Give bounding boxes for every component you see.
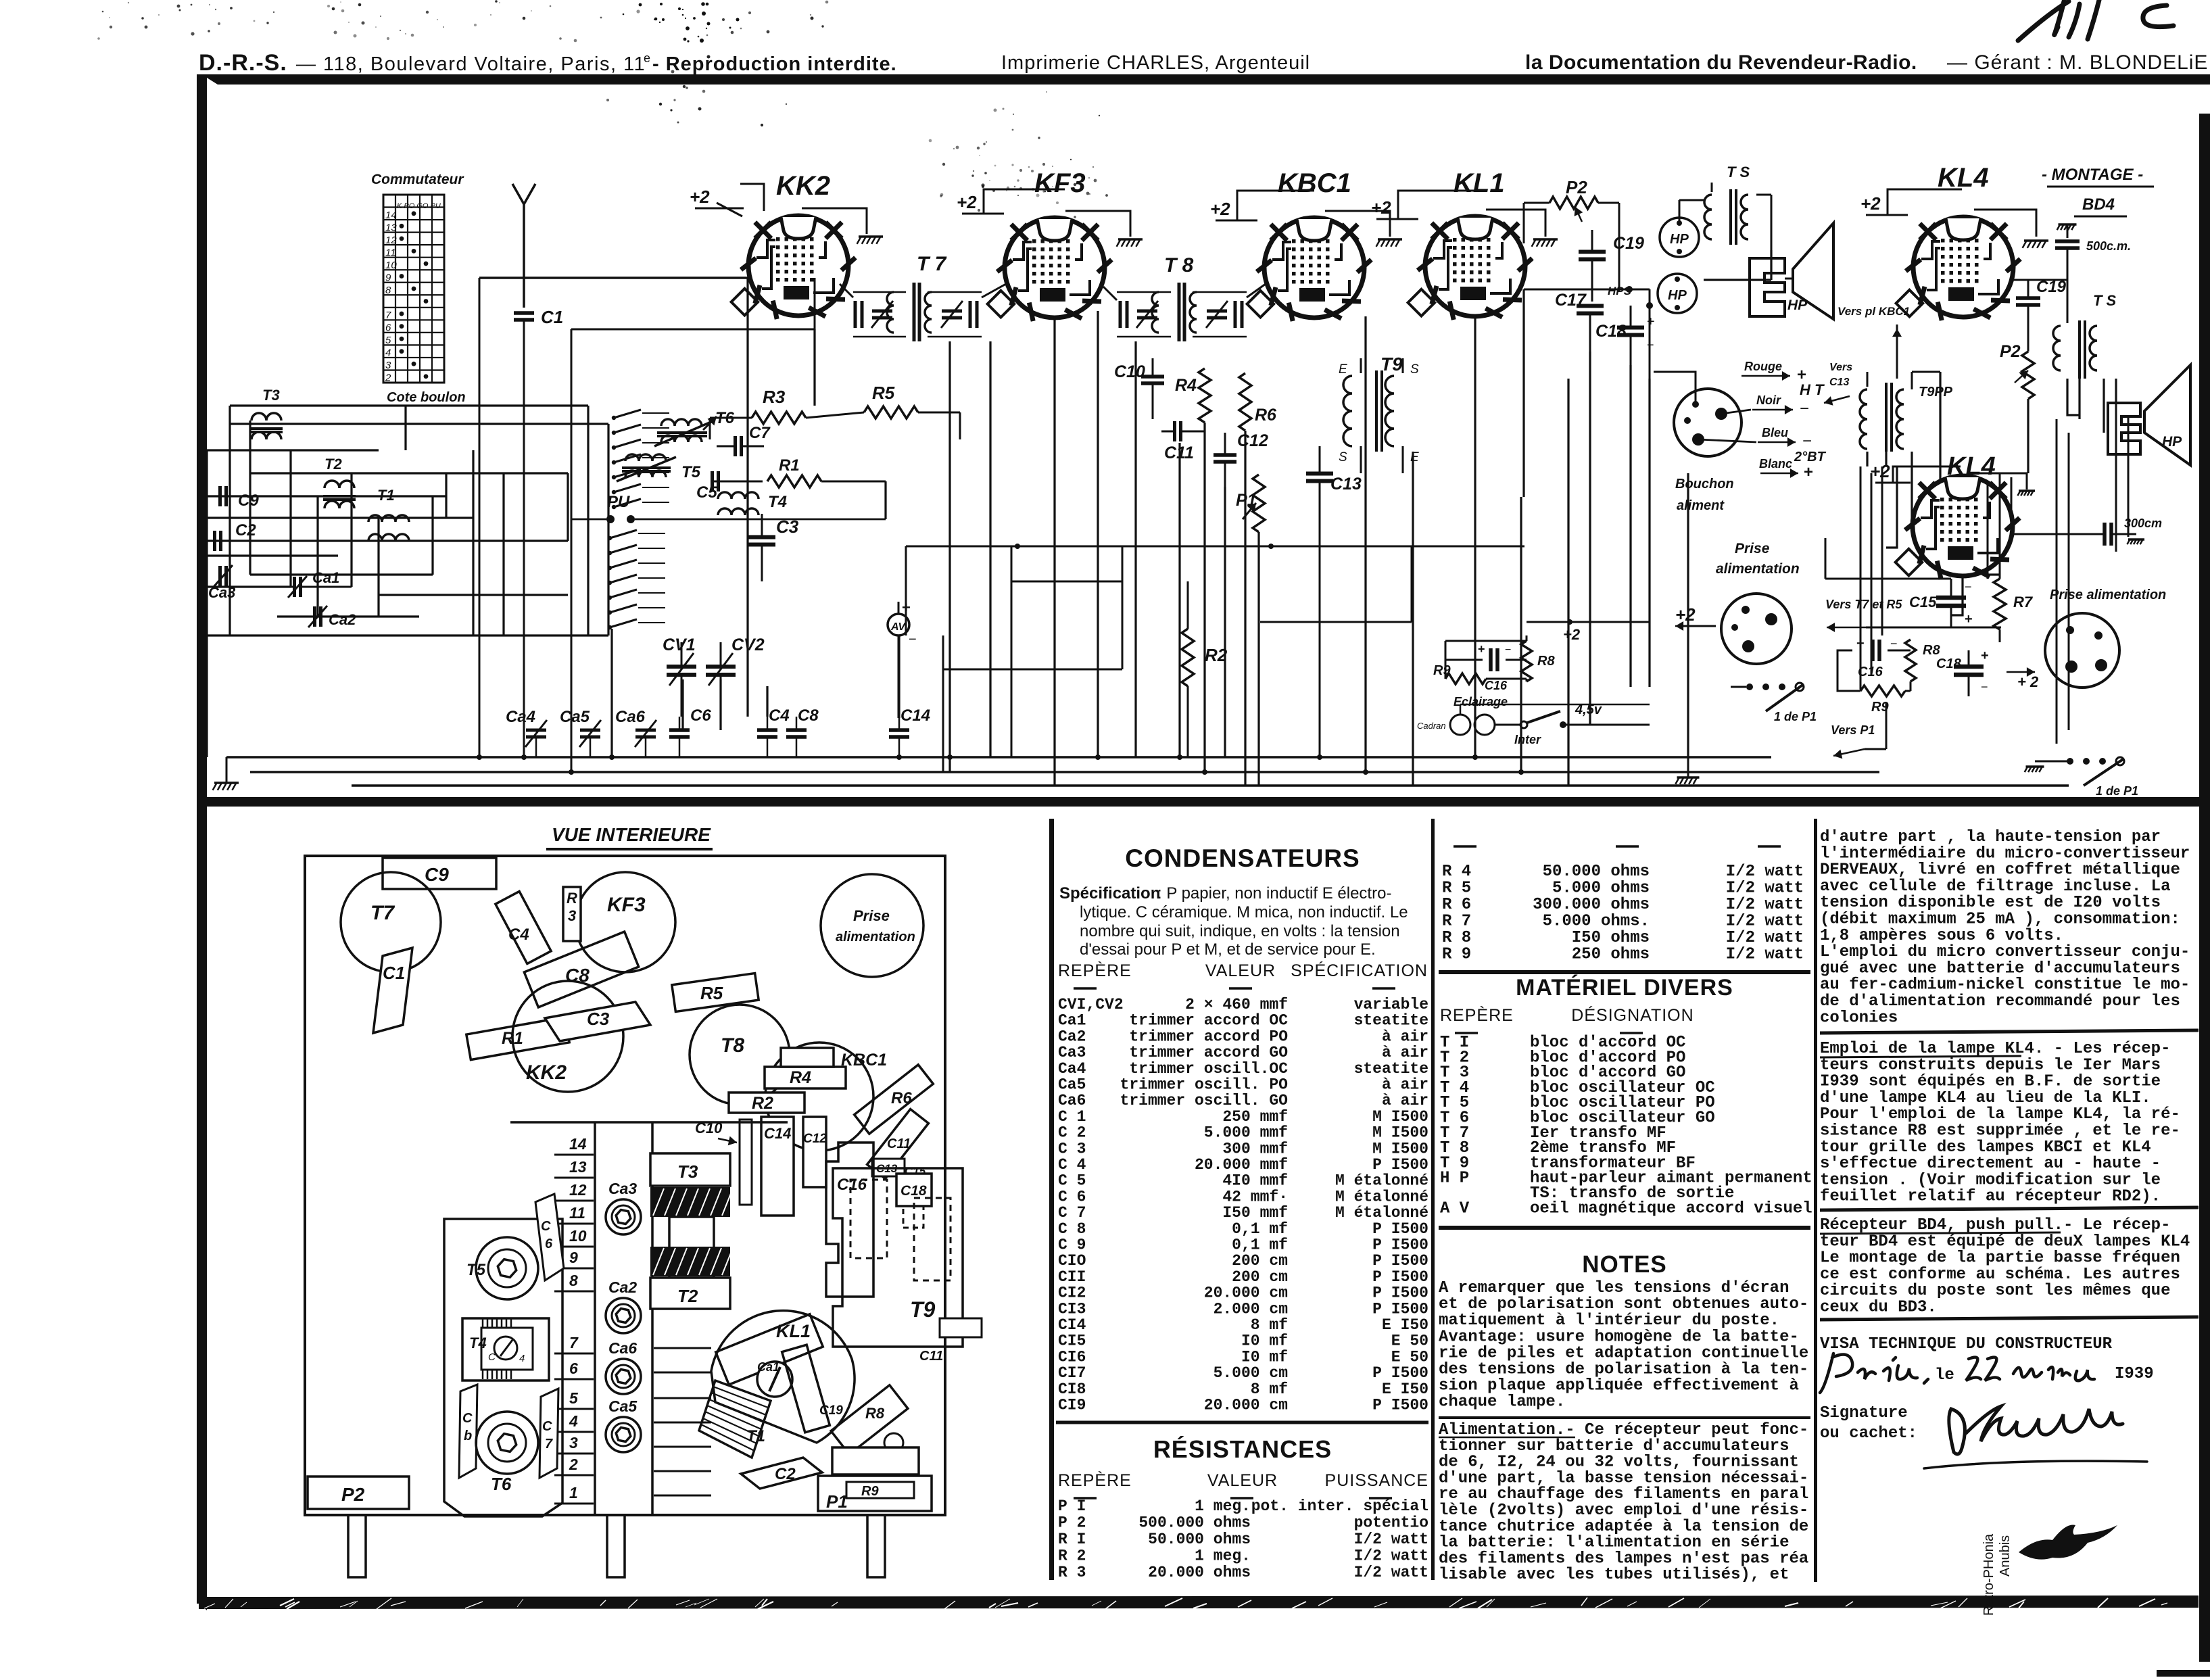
- capacitor C15 right: [1936, 596, 1966, 600]
- svg-text:CI2: CI2: [1058, 1285, 1086, 1302]
- svg-text:1 meg.: 1 meg.: [1195, 1497, 1251, 1515]
- svg-text:2.000 cm: 2.000 cm: [1214, 1300, 1288, 1318]
- wire vertical drops: [612, 278, 1568, 786]
- svg-text:I939 sont équipés en B.F. de: I939 sont équipés en B.F. de sortie: [1820, 1073, 2161, 1091]
- svg-text:T1: T1: [746, 1427, 765, 1445]
- svg-text:P I500: P I500: [1372, 1364, 1428, 1382]
- svg-text:R4: R4: [790, 1068, 811, 1087]
- svg-text:Cote boulon: Cote boulon: [387, 390, 466, 405]
- svg-text:circuits du poste sont les m: circuits du poste sont les mêmes que: [1820, 1282, 2170, 1300]
- svg-text:5.000 ohms: 5.000 ohms: [1552, 880, 1650, 898]
- capacitor C19 right: [2016, 296, 2040, 300]
- svg-text:+2: +2: [690, 187, 710, 207]
- switch 1 de P1 left: [1731, 683, 1817, 723]
- svg-text:feuillet relatif au récepteur: feuillet relatif au récepteur RD2).: [1820, 1188, 2161, 1206]
- svg-text:teur BD4 est équipé de deuX la: teur BD4 est équipé de deuX lampes KL4: [1820, 1232, 2190, 1251]
- svg-text:C 6: C 6: [1058, 1188, 1086, 1205]
- svg-text:2 × 460 mmf: 2 × 460 mmf: [1185, 996, 1288, 1013]
- svg-text:Retro-PHonia: Retro-PHonia: [1981, 1533, 1996, 1616]
- coil T5: [476, 1237, 538, 1299]
- tube KK2: [690, 171, 883, 319]
- svg-text:2: 2: [569, 1456, 578, 1473]
- svg-text:à air: à air: [1382, 1028, 1428, 1045]
- svg-text:- MONTAGE -: - MONTAGE -: [2042, 166, 2143, 184]
- svg-text:alimentation: alimentation: [836, 930, 915, 944]
- svg-text:T S: T S: [2093, 292, 2117, 309]
- svg-text:C3: C3: [587, 1009, 610, 1029]
- svg-text:Rouge: Rouge: [1744, 360, 1782, 373]
- svg-text:C 7: C 7: [1058, 1204, 1086, 1222]
- svg-text:C2: C2: [775, 1465, 796, 1483]
- capacitor Cb: [459, 1385, 477, 1478]
- svg-text:I50 ohms: I50 ohms: [1572, 929, 1650, 947]
- socket prise alimentation: [821, 874, 923, 977]
- svg-text:20.000 ohms: 20.000 ohms: [1148, 1564, 1251, 1581]
- condenser C9 block: [383, 858, 496, 889]
- svg-text:Ca5: Ca5: [1058, 1076, 1086, 1094]
- variable capacitor CV1: [667, 665, 696, 669]
- svg-text:steatite: steatite: [1354, 1012, 1428, 1030]
- svg-text:E 50: E 50: [1391, 1333, 1428, 1350]
- svg-text:C19: C19: [1613, 234, 1644, 253]
- handwritten date: [1820, 1353, 1928, 1393]
- trimmer Ca5: [606, 1417, 641, 1452]
- svg-text:7: 7: [569, 1334, 579, 1351]
- wire HT bus: [352, 784, 2069, 787]
- svg-text:— 118, Boulevard Voltaire, Par: — 118, Boulevard Voltaire, Paris, 11: [296, 53, 646, 75]
- svg-text:ce est conforme au schéma. Le: ce est conforme au schéma. Les autres: [1820, 1266, 2180, 1284]
- svg-text:C 3: C 3: [1058, 1140, 1086, 1157]
- svg-text:CI3: CI3: [1058, 1300, 1086, 1318]
- svg-text:KBC1: KBC1: [1278, 168, 1351, 198]
- svg-text:E I50: E I50: [1382, 1316, 1428, 1334]
- svg-text:REPÈRE: REPÈRE: [1058, 961, 1132, 980]
- svg-text:−: −: [909, 632, 917, 647]
- svg-text:aliment: aliment: [1677, 498, 1725, 513]
- speaker HP field coil circle 1: [1660, 218, 1699, 257]
- svg-text:T9: T9: [1380, 354, 1403, 375]
- IF transformer T7: [840, 253, 1006, 341]
- svg-text:R4: R4: [1175, 376, 1197, 395]
- svg-text:Eclairage: Eclairage: [1454, 695, 1508, 709]
- svg-text:R1: R1: [779, 456, 800, 475]
- trimmer Ca4: [526, 729, 546, 732]
- trimmer Ca2: [606, 1298, 641, 1333]
- resistor R4: [1199, 368, 1211, 423]
- svg-text:Ca1: Ca1: [757, 1360, 779, 1374]
- resistor R1: [767, 475, 821, 487]
- svg-text:T 7: T 7: [917, 253, 947, 275]
- svg-text:C 1: C 1: [1058, 1108, 1086, 1126]
- capacitor C13: [872, 1159, 905, 1176]
- T2 block: [650, 1278, 730, 1309]
- svg-text:6: 6: [569, 1360, 578, 1377]
- svg-text:oeil magnétique accord visuel: oeil magnétique accord visuel: [1530, 1199, 1812, 1218]
- svg-text:P I500: P I500: [1372, 1252, 1428, 1270]
- T3 winding hatched: [650, 1187, 730, 1217]
- svg-text:Commutateur: Commutateur: [371, 172, 464, 187]
- svg-text:M étalonné: M étalonné: [1335, 1172, 1428, 1190]
- capacitor C2: [213, 531, 216, 551]
- capacitor C10: [1141, 375, 1164, 379]
- svg-text:R 8: R 8: [1442, 929, 1471, 947]
- trimmer Ca2: [313, 606, 316, 627]
- svg-text:R 5: R 5: [1442, 880, 1471, 898]
- svg-text:6: 6: [385, 322, 391, 334]
- svg-text:Ca4: Ca4: [506, 708, 535, 726]
- svg-text:AV: AV: [890, 621, 906, 633]
- svg-text:6: 6: [545, 1237, 553, 1251]
- capacitor C14: [761, 1117, 794, 1216]
- capacitor C18: [1617, 326, 1644, 330]
- svg-text:C7: C7: [749, 424, 771, 442]
- resistances table continued R4-R9: [1454, 845, 1476, 848]
- svg-text:C18: C18: [1595, 322, 1627, 341]
- svg-text:T8: T8: [721, 1034, 744, 1057]
- svg-text:Inter: Inter: [1514, 733, 1541, 746]
- resistor R5: [672, 974, 759, 1012]
- svg-text:T9: T9: [910, 1297, 936, 1322]
- svg-text:Ca2: Ca2: [1058, 1028, 1086, 1045]
- svg-text:C12: C12: [1237, 431, 1268, 450]
- svg-text:C8: C8: [798, 706, 819, 725]
- svg-text:pot. inter. spécial: pot. inter. spécial: [1251, 1497, 1428, 1515]
- svg-text:C2: C2: [235, 521, 256, 539]
- svg-text:- Reproduction interdite.: - Reproduction interdite.: [652, 53, 897, 75]
- svg-text:colonies: colonies: [1820, 1009, 1898, 1027]
- svg-text:à air: à air: [1382, 1044, 1428, 1061]
- svg-text:P2: P2: [2000, 342, 2021, 361]
- svg-text:E 50: E 50: [1391, 1348, 1428, 1366]
- svg-text:7: 7: [545, 1437, 553, 1451]
- svg-text:P2: P2: [341, 1484, 365, 1505]
- svg-text:3: 3: [569, 1434, 578, 1451]
- svg-text:20.000 cm: 20.000 cm: [1204, 1285, 1288, 1302]
- svg-text:C16: C16: [1485, 679, 1508, 692]
- svg-text:250 mmf: 250 mmf: [1222, 1108, 1288, 1126]
- transformer T3: [250, 387, 283, 439]
- svg-text:C10: C10: [1114, 362, 1145, 381]
- capacitor C18 bottom: [1954, 665, 1984, 669]
- svg-text:−: −: [1965, 580, 1972, 594]
- tube KL4 lower: [1870, 452, 2035, 579]
- resistor R3: [563, 887, 581, 941]
- svg-text:Spécification: Spécification: [1059, 884, 1160, 903]
- svg-text:REPÈRE: REPÈRE: [1058, 1470, 1132, 1490]
- svg-text:Bleu: Bleu: [1762, 426, 1788, 439]
- svg-text:— Gérant : M. BLONDELiE: — Gérant : M. BLONDELiE: [1947, 51, 2208, 74]
- svg-text:VALEUR: VALEUR: [1207, 1471, 1278, 1490]
- potentiometer P2 box: [308, 1477, 409, 1509]
- svg-text:KF3: KF3: [1034, 168, 1086, 198]
- coil T4: [462, 1318, 549, 1381]
- svg-text:I/2 watt: I/2 watt: [1354, 1547, 1428, 1565]
- svg-text:D.-R.-S.: D.-R.-S.: [199, 50, 287, 76]
- svg-text:I50 mmf: I50 mmf: [1222, 1204, 1288, 1222]
- wire filament bus: [226, 756, 1771, 759]
- svg-text:VUE INTERIEURE: VUE INTERIEURE: [552, 824, 711, 845]
- capacitor C2: [741, 1458, 822, 1489]
- svg-text:+2: +2: [1563, 626, 1581, 643]
- pickup PU: [606, 515, 615, 523]
- svg-text:−: −: [1890, 637, 1898, 650]
- svg-text:8: 8: [569, 1272, 578, 1289]
- oscillator coil T4: [718, 492, 787, 515]
- svg-text:E: E: [1339, 362, 1347, 377]
- svg-text:P I500: P I500: [1372, 1237, 1428, 1254]
- svg-text:l'intermédiaire du micro-conve: l'intermédiaire du micro-convertisseur: [1820, 844, 2190, 863]
- svg-text:Prise: Prise: [853, 907, 890, 924]
- svg-text:tension . (Voir modification: tension . (Voir modification sur le: [1820, 1171, 2161, 1189]
- svg-text:SPÉCIFICATION: SPÉCIFICATION: [1291, 961, 1428, 980]
- svg-text:CI5: CI5: [1058, 1333, 1086, 1350]
- svg-text:R 9: R 9: [1442, 946, 1471, 964]
- power plug bouchon alimentation: [1654, 360, 1827, 513]
- svg-text:KK2: KK2: [526, 1061, 567, 1084]
- capacitor C17: [1577, 304, 1604, 308]
- svg-text:R7: R7: [2013, 594, 2034, 610]
- svg-text:0,1 mf: 0,1 mf: [1232, 1237, 1288, 1254]
- transformer T8 can: [690, 1005, 790, 1105]
- svg-text:R 2: R 2: [1058, 1547, 1086, 1565]
- svg-text:S: S: [1339, 450, 1347, 464]
- svg-text:C: C: [488, 1351, 496, 1363]
- svg-text:C: C: [541, 1219, 551, 1234]
- svg-text:PU: PU: [607, 493, 630, 511]
- svg-text:Vers: Vers: [1829, 362, 1852, 373]
- svg-text:Ca2: Ca2: [329, 611, 356, 628]
- svg-text:500.000 ohms: 500.000 ohms: [1138, 1514, 1251, 1532]
- svg-text:I/2 watt: I/2 watt: [1726, 913, 1804, 931]
- svg-text:K PO GO PU: K PO GO PU: [397, 202, 441, 210]
- svg-text:à air: à air: [1382, 1076, 1428, 1094]
- svg-text:+: +: [1647, 314, 1655, 329]
- power socket prise alimentation right: [2045, 587, 2166, 688]
- speaker HP field coil circle 2: [1658, 274, 1697, 313]
- svg-text:Pour l'emploi de la lampe KL: Pour l'emploi de la lampe KL4, la ré-: [1820, 1105, 2180, 1124]
- svg-text:Récepteur BD4, push pull.- L: Récepteur BD4, push pull.- Le récep-: [1820, 1216, 2170, 1234]
- svg-text:Vers T7 et R5: Vers T7 et R5: [1825, 598, 1902, 611]
- svg-text:T4: T4: [469, 1335, 487, 1351]
- svg-text:3: 3: [568, 907, 576, 924]
- svg-text:à air: à air: [1382, 1092, 1428, 1109]
- svg-text:8: 8: [385, 285, 391, 296]
- svg-text:+2: +2: [1675, 604, 1696, 625]
- svg-text:PUISSANCE: PUISSANCE: [1325, 1471, 1428, 1490]
- wire ground bus: [250, 771, 1879, 773]
- svg-text:I/2 watt: I/2 watt: [1726, 880, 1804, 898]
- T3 block: [650, 1153, 730, 1186]
- svg-text:2°BT: 2°BT: [1794, 450, 1827, 464]
- svg-text:H P: H P: [1440, 1170, 1469, 1188]
- svg-text:BD4: BD4: [2082, 195, 2115, 214]
- coil T6: [476, 1412, 538, 1474]
- capacitor C16 left: [1489, 648, 1493, 671]
- svg-text:Ca3: Ca3: [608, 1180, 637, 1197]
- svg-text:CV1: CV1: [663, 635, 696, 654]
- svg-text:: P papier, non inductif E él: : P papier, non inductif E électro-: [1157, 884, 1391, 903]
- svg-text:KL4: KL4: [1938, 163, 1989, 193]
- resistor R9 bottom: [1860, 686, 1905, 696]
- band switch contacts: [608, 410, 669, 629]
- transformer T2: [323, 456, 356, 508]
- wire AVC bus: [571, 329, 815, 331]
- svg-text:Ca5: Ca5: [560, 708, 590, 726]
- svg-text:T6: T6: [491, 1474, 512, 1494]
- svg-text:1 de P1: 1 de P1: [1774, 710, 1817, 723]
- svg-text:Ca3: Ca3: [1058, 1044, 1086, 1061]
- svg-text:300.000 ohms: 300.000 ohms: [1533, 896, 1650, 914]
- capacitor 300cm: [2103, 523, 2107, 546]
- svg-text:T9PP: T9PP: [1919, 385, 1953, 400]
- svg-text:HP: HP: [1668, 288, 1687, 303]
- svg-text:9: 9: [569, 1249, 578, 1266]
- potentiometer P1: [818, 1476, 932, 1511]
- capacitor C1: [373, 948, 412, 1033]
- svg-text:C 4: C 4: [1058, 1156, 1086, 1174]
- wire loop A: [906, 546, 1524, 548]
- svg-text:CII: CII: [1058, 1268, 1086, 1286]
- capacitor C8: [524, 932, 638, 1007]
- svg-text:Ca6: Ca6: [1058, 1092, 1086, 1109]
- svg-text:Prise: Prise: [1735, 541, 1770, 556]
- svg-text:HP: HP: [1670, 232, 1689, 247]
- svg-text:C5: C5: [696, 483, 717, 502]
- svg-text:C18: C18: [1936, 656, 1962, 671]
- svg-text:CONDENSATEURS: CONDENSATEURS: [1125, 844, 1360, 872]
- oscillator coil T6: [654, 409, 735, 446]
- svg-text:Ca1: Ca1: [312, 569, 339, 586]
- svg-text:300 mmf: 300 mmf: [1222, 1140, 1288, 1157]
- tube KL4: [1860, 163, 2048, 320]
- svg-text:Avantage: usure homogène de l: Avantage: usure homogène de la batte-: [1439, 1328, 1799, 1346]
- svg-text:12: 12: [569, 1181, 587, 1199]
- resistor R8 bottom: [1905, 640, 1916, 681]
- svg-text:3: 3: [385, 360, 391, 371]
- svg-text:C9: C9: [238, 491, 259, 510]
- signature: [1924, 1406, 2147, 1468]
- wire loop C: [1260, 621, 1412, 623]
- tuning gang strip: [594, 1122, 596, 1515]
- trimmer Ca6: [606, 1359, 641, 1394]
- capacitor C19: [1579, 250, 1606, 254]
- svg-text:20.000 mmf: 20.000 mmf: [1195, 1156, 1288, 1174]
- svg-text:potentio: potentio: [1354, 1514, 1428, 1532]
- svg-text:KL1: KL1: [776, 1321, 811, 1341]
- svg-text:C16: C16: [1858, 665, 1883, 679]
- wire input mesh: [207, 406, 608, 757]
- trimmer Ca3: [218, 566, 222, 586]
- svg-text:5.000 ohms.: 5.000 ohms.: [1543, 913, 1650, 931]
- chassis outline: [305, 856, 945, 1515]
- svg-text:Ca6: Ca6: [615, 708, 646, 726]
- capacitor C6: [535, 1194, 564, 1280]
- svg-text:C14: C14: [764, 1125, 791, 1142]
- commutateur switch table: [371, 172, 466, 405]
- svg-text:KBC1: KBC1: [841, 1051, 887, 1070]
- svg-text:P I500: P I500: [1372, 1220, 1428, 1238]
- capacitor C8: [786, 728, 807, 732]
- wire right verticals: [1524, 250, 2116, 757]
- svg-text:nombre qui suit, indique, en v: nombre qui suit, indique, en volts : la …: [1080, 922, 1400, 940]
- svg-text:RÉSISTANCES: RÉSISTANCES: [1153, 1435, 1332, 1463]
- svg-text:tension disponible est de I20: tension disponible est de I20 volts: [1820, 894, 2161, 912]
- tube KL1: [1371, 168, 1558, 320]
- svg-text:et de polarisation sont obtenu: et de polarisation sont obtenues auto-: [1439, 1295, 1808, 1314]
- svg-text:le: le: [1935, 1366, 1954, 1385]
- svg-text:VISA TECHNIQUE DU CONSTRUCTEUR: VISA TECHNIQUE DU CONSTRUCTEUR: [1820, 1335, 2113, 1353]
- capacitor C9: [218, 486, 222, 506]
- svg-text:T3: T3: [262, 387, 280, 404]
- svg-text:C13: C13: [1330, 475, 1362, 494]
- svg-text:P I: P I: [1058, 1497, 1086, 1515]
- svg-text:R 7: R 7: [1442, 913, 1471, 931]
- svg-text:I939: I939: [2115, 1365, 2154, 1383]
- svg-text:sistance R8 est supprimée , e: sistance R8 est supprimée , et le re-: [1820, 1122, 2180, 1141]
- svg-text:+: +: [1965, 612, 1973, 627]
- svg-text:R: R: [567, 890, 577, 907]
- transformer T9PP: [1860, 372, 1953, 452]
- svg-text:7: 7: [385, 310, 391, 321]
- svg-text:C18: C18: [900, 1183, 927, 1199]
- potentiometer P2 right: [2022, 352, 2034, 399]
- svg-text:M I500: M I500: [1372, 1140, 1428, 1157]
- svg-text:4I0 mmf: 4I0 mmf: [1222, 1172, 1288, 1190]
- trimmer Ca6: [635, 729, 656, 732]
- svg-text:CI8: CI8: [1058, 1381, 1086, 1398]
- variable capacitor CV2: [706, 665, 736, 669]
- svg-text:R9: R9: [1433, 663, 1451, 678]
- svg-text:9: 9: [385, 272, 391, 283]
- capacitor C11: [867, 1109, 929, 1179]
- potentiometer P2: [1524, 177, 1619, 291]
- svg-text:T2: T2: [325, 456, 342, 473]
- potentiometer P1: [1253, 475, 1265, 532]
- svg-text:A remarquer que les tensions: A remarquer que les tensions d'écran: [1439, 1279, 1789, 1297]
- svg-text:−: −: [1981, 680, 1988, 694]
- svg-text:I0 mf: I0 mf: [1241, 1333, 1288, 1350]
- tube KL1 assembly: [711, 1311, 855, 1443]
- left coil box T5/T4/T6: [444, 1219, 562, 1516]
- svg-text:ceux du BD3.: ceux du BD3.: [1820, 1299, 1937, 1317]
- resistor R9 left: [1445, 673, 1486, 684]
- svg-text:C: C: [542, 1419, 552, 1434]
- svg-text:Vers pl KBC1: Vers pl KBC1: [1837, 305, 1910, 318]
- svg-text:d'une lampe KL4 au lieu de la: d'une lampe KL4 au lieu de la KLI.: [1820, 1089, 2151, 1107]
- svg-text:P2: P2: [1566, 177, 1587, 197]
- svg-text:1,8 ampères sous 6 volts.: 1,8 ampères sous 6 volts.: [1820, 927, 2063, 945]
- capacitor C3: [748, 535, 775, 539]
- svg-text:C1: C1: [383, 963, 405, 983]
- svg-text:CI6: CI6: [1058, 1348, 1086, 1366]
- svg-text:CIO: CIO: [1058, 1252, 1086, 1270]
- svg-text:14: 14: [569, 1135, 587, 1153]
- speaker magnet E: [1750, 258, 1785, 316]
- svg-text:−: −: [1505, 644, 1511, 656]
- svg-text:CI7: CI7: [1058, 1364, 1086, 1382]
- svg-text:T5: T5: [681, 463, 701, 481]
- svg-text:Cadran: Cadran: [1417, 721, 1446, 731]
- svg-text:Bouchon: Bouchon: [1675, 477, 1734, 491]
- pilot lamps eclairage: [1417, 695, 1650, 746]
- svg-text:C 5: C 5: [1058, 1172, 1086, 1190]
- svg-text:E I50: E I50: [1382, 1381, 1428, 1398]
- svg-text:5: 5: [569, 1389, 579, 1407]
- svg-text:S: S: [1410, 362, 1419, 377]
- svg-text:1 meg.: 1 meg.: [1195, 1547, 1251, 1565]
- svg-text:R 6: R 6: [1442, 896, 1471, 914]
- capacitor C13: [1306, 472, 1333, 476]
